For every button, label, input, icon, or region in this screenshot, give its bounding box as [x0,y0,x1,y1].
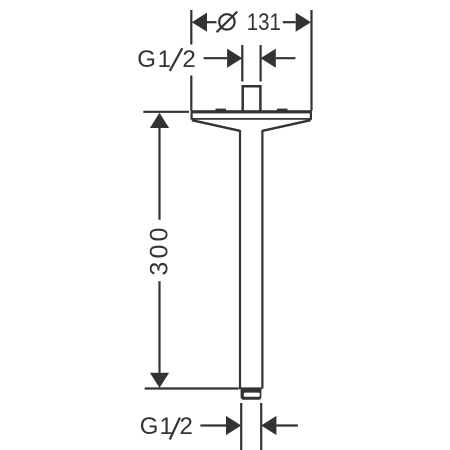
svg-text:131: 131 [247,9,281,36]
top G1/2: left-pointing arrowhead [261,49,276,68]
ceiling plate: left rim side [191,113,193,120]
svg-text:G1: G1 [140,413,174,440]
bottom G1/2: leader line from label [200,424,226,426]
bottom end fitting (G1/2 nipple) outer body [241,389,262,400]
ceiling plate: right fixing tick on top [277,109,288,111]
bottom G1/2: right-pointing arrowhead [226,416,241,435]
top dimension Ø131: left extension line (upper segment) [190,10,192,45]
ceiling plate: right cone slope [263,120,311,131]
bottom G1/2: right extension line [260,403,262,450]
300 dimension: upper dimension line segment [158,128,160,220]
shower arm pipe: right wall [261,130,263,388]
top dimension Ø131: left dimension line dash [207,21,217,23]
ceiling plate: rim bottom line [192,118,311,120]
top dimension Ø131: left arrowhead [192,13,207,32]
top dimension Ø131: right arrowhead [296,13,311,32]
bottom end fitting: white slot [244,393,260,397]
shower arm pipe: left wall [239,130,241,388]
bottom G1/2: leader line to the right [276,424,298,426]
top G1/2: right extension line of threaded stub [260,45,262,82]
top G1/2 label: slash [170,48,183,71]
ceiling plate: left cone slope [192,120,240,131]
svg-text:300: 300 [146,224,174,275]
top G1/2: leader line to the right [276,57,296,59]
svg-text:G1: G1 [137,46,173,73]
svg-text:2: 2 [180,413,193,440]
300 dimension: top extension line [143,111,189,113]
300 dimension: down arrowhead [150,373,169,388]
top G1/2: right-pointing arrowhead [227,49,242,68]
ceiling plate: right rim side [310,113,312,120]
300 dimension: bottom extension line [145,387,239,389]
bottom G1/2: left-pointing arrowhead [261,416,276,435]
threaded stub (G1/2 ceiling connector) [243,86,261,110]
svg-text:2: 2 [182,46,195,73]
top G1/2: left extension line of threaded stub [241,45,243,82]
top dimension Ø131: label "Ø 131" [217,12,238,33]
top G1/2: leader line from label [204,57,227,59]
bottom G1/2 label: slash [170,418,180,440]
ceiling plate: left fixing tick on top [216,109,227,111]
300 dimension: up arrowhead [150,113,169,128]
300 dimension: lower dimension line segment [158,281,160,372]
top dimension Ø131: right extension line [310,10,312,111]
top dimension Ø131: right dimension line dash [283,21,296,23]
bottom G1/2: left extension line [240,403,242,450]
shower arm pipe: bottom shoulder line [239,387,262,389]
top dimension Ø131: left extension line (lower segment) [190,76,192,111]
ceiling plate: top rim thick line [191,110,312,113]
